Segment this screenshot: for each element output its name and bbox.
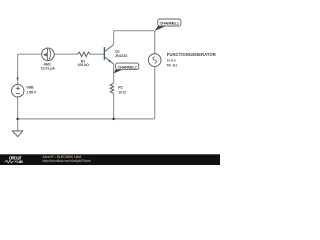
function generator FUNCTIONGENERATOR (148, 54, 161, 67)
wire: VBB bottom down to ground stem (17, 97, 19, 131)
svg-text:100 kΩ: 100 kΩ (77, 63, 89, 67)
resistor R1 (77, 52, 90, 57)
svg-text:R2: R2 (118, 85, 123, 89)
svg-text:LAB: LAB (17, 160, 23, 164)
current arrow above source (16, 78, 18, 81)
wire: FG bottom to rail (154, 66, 156, 119)
node flag CHANNEL2 (114, 63, 139, 73)
junction node left (16, 118, 19, 121)
svg-text:CHANNEL2: CHANNEL2 (118, 64, 138, 69)
wire: emitter vertical to R2 (113, 64, 115, 83)
svg-text:VBB: VBB (26, 85, 34, 89)
wire: FG branch vertical top (154, 31, 156, 54)
svg-text:FUNCTIONGENERATOR: FUNCTIONGENERATOR (167, 52, 216, 57)
wire: left vertical from top corner to VBB top (17, 54, 19, 84)
svg-text:http://circuitlab.com/c6w6p647: http://circuitlab.com/c6w6p647hkca/ (43, 159, 92, 163)
svg-text:2N2222: 2N2222 (115, 54, 127, 58)
svg-text:50 Hz: 50 Hz (167, 64, 178, 68)
wire: bottom rail (18, 118, 155, 120)
wire: ammeter to R1 (54, 53, 77, 55)
svg-text:10 Ω: 10 Ω (118, 90, 126, 94)
wire: top horizontal collector to FG branch (114, 30, 155, 32)
footer logo zigzag (5, 160, 14, 163)
voltage source VBB (12, 85, 24, 97)
ground (12, 131, 23, 137)
footer bar (0, 154, 220, 165)
svg-text:CHANNEL1: CHANNEL1 (160, 21, 180, 26)
svg-text:Q1: Q1 (115, 50, 120, 54)
wire: top-left horizontal to ammeter (18, 53, 42, 55)
footer logo LAB (15, 160, 17, 162)
node flag CHANNEL1 (155, 19, 181, 31)
ammeter AM1 (42, 48, 55, 61)
wire: collector vertical up (113, 31, 115, 45)
wire: R2 to bottom rail (113, 93, 115, 119)
svg-text:1.58 V: 1.58 V (26, 91, 37, 95)
svg-text:10.01 µA: 10.01 µA (41, 66, 56, 70)
resistor R2 (110, 83, 113, 93)
svg-text:sine: sine (167, 58, 176, 62)
transistor Q1 (104, 45, 113, 64)
junction node R2 (112, 118, 115, 121)
wire: R1 to Q1 base (90, 53, 104, 55)
